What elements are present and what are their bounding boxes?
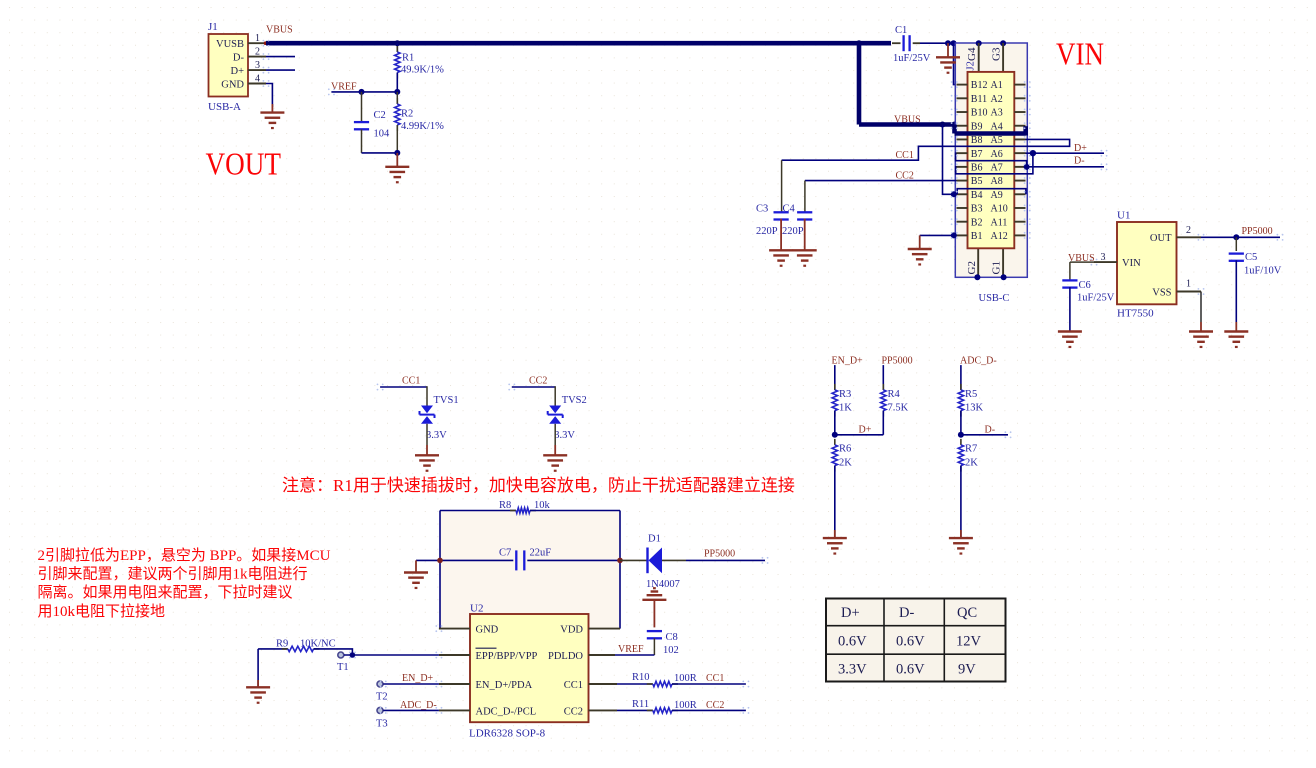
test point T1: [338, 652, 344, 658]
junction VBUS/R1: [394, 40, 400, 46]
svg-text:PP5000: PP5000: [704, 549, 735, 560]
wire VBUS thick to B9: [859, 122, 956, 127]
junction B12 branch: [951, 40, 957, 46]
svg-text:J1: J1: [208, 21, 218, 33]
ground (C5): [1224, 332, 1248, 347]
svg-text:3: 3: [1101, 252, 1106, 263]
gnd stem R9: [257, 649, 259, 687]
resistor R4: [882, 365, 884, 390]
svg-text:PDLDO: PDLDO: [548, 651, 583, 662]
svg-text:G1: G1: [991, 261, 1003, 274]
U1 pin2 stub: [1177, 236, 1202, 238]
svg-text:隔离。如果用电阻来配置，下拉时建议: 隔离。如果用电阻来配置，下拉时建议: [38, 584, 293, 601]
pin A12 stub: [1014, 234, 1025, 236]
svg-text:A2: A2: [991, 94, 1003, 105]
U2 CC2 stub: [589, 709, 618, 711]
pin A6 stub: [1014, 152, 1025, 154]
svg-text:B6: B6: [971, 162, 983, 173]
pin G4 stub: [978, 43, 980, 72]
wire D- from J1: [266, 56, 295, 58]
svg-text:引脚来配置，建议两个引脚用1k电阻进行: 引脚来配置，建议两个引脚用1k电阻进行: [38, 566, 308, 583]
snap markers: [263, 40, 270, 47]
pin A10 stub: [1014, 207, 1025, 209]
svg-text:ADC_D-: ADC_D-: [960, 356, 997, 367]
wire PP5000 from D1: [686, 559, 765, 561]
svg-text:GND: GND: [476, 625, 499, 636]
svg-text:B9: B9: [971, 121, 983, 132]
svg-text:R11: R11: [632, 699, 649, 710]
wire D- from A7: [1026, 166, 1105, 168]
wire D+ from J1: [266, 69, 295, 71]
svg-text:C6: C6: [1079, 280, 1091, 291]
U2 VDD stub: [589, 628, 621, 630]
U2 GND stub: [439, 628, 470, 630]
svg-text:R10: R10: [632, 672, 650, 683]
wire B1 to gnd: [920, 234, 957, 236]
svg-text:CC1: CC1: [402, 376, 420, 387]
ground (VSS): [1189, 332, 1213, 347]
svg-text:U1: U1: [1117, 210, 1130, 222]
svg-text:CC1: CC1: [564, 680, 583, 691]
pin B7 stub: [957, 152, 968, 154]
svg-text:R7: R7: [965, 444, 977, 455]
capacitor C5: [1235, 237, 1237, 251]
wire VBUS thick across B9 A4: [955, 131, 1026, 136]
wire CC2 to TVS2: [512, 386, 555, 388]
svg-text:B4: B4: [971, 190, 983, 201]
svg-text:PP5000: PP5000: [882, 356, 913, 367]
svg-text:VREF: VREF: [618, 644, 644, 655]
junction top G4: [976, 40, 982, 46]
gnd stem R2: [396, 153, 398, 167]
svg-text:VSS: VSS: [1152, 287, 1171, 298]
wire B4 to A9 loop: [957, 189, 1026, 195]
ground (R9): [246, 687, 270, 702]
ground (TVS2): [543, 455, 567, 470]
svg-text:J2: J2: [966, 61, 977, 70]
svg-text:2: 2: [1186, 225, 1191, 236]
svg-text:3.3V: 3.3V: [838, 662, 867, 678]
svg-text:A4: A4: [991, 121, 1003, 132]
wire gnd stem J1: [271, 104, 273, 113]
svg-text:R9: R9: [276, 639, 288, 650]
svg-text:VIN: VIN: [1056, 36, 1104, 72]
J1 pin 1 stub: [248, 42, 266, 44]
svg-text:3.3V: 3.3V: [554, 430, 575, 441]
wire VBUS thick bus: [266, 41, 891, 46]
svg-text:1K: 1K: [839, 403, 852, 414]
J1 pin 4 stub: [248, 83, 266, 85]
connector J1 body USB-A: [209, 34, 249, 97]
wire T3 to ADC pin: [383, 709, 439, 711]
junction C5: [1233, 234, 1239, 240]
gnd stem C1: [947, 43, 949, 57]
svg-text:4.99K/1%: 4.99K/1%: [401, 121, 444, 132]
svg-text:CC2: CC2: [706, 700, 724, 711]
svg-text:VUSB: VUSB: [216, 39, 244, 50]
svg-text:D1: D1: [648, 534, 661, 545]
svg-text:TVS2: TVS2: [562, 395, 587, 406]
pin B12 stub: [957, 84, 968, 86]
svg-text:R6: R6: [839, 444, 851, 455]
svg-text:1N4007: 1N4007: [646, 579, 680, 590]
svg-text:EN_D+/PDA: EN_D+/PDA: [476, 680, 533, 691]
pin A1 stub: [1014, 84, 1025, 86]
svg-text:2引脚拉低为EPP，悬空为 BPP。如果接MCU: 2引脚拉低为EPP，悬空为 BPP。如果接MCU: [38, 547, 331, 564]
wire CC2 to B5: [805, 180, 957, 182]
svg-text:TVS1: TVS1: [434, 395, 459, 406]
svg-text:D+: D+: [859, 425, 872, 436]
pin B1 stub: [957, 234, 968, 236]
svg-text:D-: D-: [233, 52, 245, 63]
junction top G3: [1000, 40, 1006, 46]
svg-text:D-: D-: [899, 605, 914, 621]
svg-text:A9: A9: [991, 190, 1003, 201]
svg-text:VIN: VIN: [1122, 258, 1141, 269]
svg-text:2K: 2K: [965, 458, 978, 469]
resistor R5: [960, 365, 962, 390]
svg-text:GND: GND: [221, 79, 244, 90]
wire CC1 down to C3: [781, 160, 783, 213]
wire B7 to A7 (D-): [956, 153, 1027, 167]
wire CC1 to TVS1: [380, 386, 427, 388]
svg-text:C2: C2: [374, 110, 386, 121]
svg-text:OUT: OUT: [1150, 233, 1172, 244]
wire TVS1 to gnd: [426, 424, 428, 445]
ground (B1): [908, 249, 932, 264]
wire VREF to C8: [615, 654, 654, 656]
junction VREF/R1R2: [394, 89, 400, 95]
wire D+ node: [835, 434, 884, 436]
svg-text:220P: 220P: [782, 226, 804, 237]
svg-text:C3: C3: [756, 204, 768, 215]
capacitor C7: [416, 559, 513, 561]
wire VBUS thick jog down: [952, 125, 957, 134]
svg-text:100R: 100R: [674, 673, 697, 684]
svg-text:R8: R8: [499, 500, 511, 511]
svg-text:B1: B1: [971, 231, 983, 242]
svg-text:VDD: VDD: [560, 625, 583, 636]
pin A3 stub: [1014, 111, 1025, 113]
wire D- node: [961, 434, 1008, 436]
table QC: [826, 599, 1006, 682]
svg-text:1uF/25V: 1uF/25V: [893, 53, 931, 64]
svg-text:0.6V: 0.6V: [896, 634, 925, 650]
svg-text:0.6V: 0.6V: [838, 634, 867, 650]
svg-text:1: 1: [1186, 279, 1191, 290]
svg-text:49.9K/1%: 49.9K/1%: [401, 65, 444, 76]
svg-text:用10k电阻下拉接地: 用10k电阻下拉接地: [38, 603, 166, 620]
U2 EN stub: [439, 683, 470, 685]
junction B1: [951, 232, 957, 238]
svg-text:A5: A5: [991, 135, 1003, 146]
pin A9 stub: [1014, 193, 1025, 195]
junction T1: [350, 652, 356, 658]
wire CC2 down to C4: [804, 181, 806, 213]
svg-text:A12: A12: [991, 231, 1008, 242]
ground (TVS1): [415, 455, 439, 470]
resistor R6: [834, 439, 836, 445]
svg-text:A11: A11: [991, 217, 1008, 228]
wire loop left: [439, 511, 441, 629]
svg-text:A10: A10: [991, 204, 1008, 215]
resistor R7: [960, 439, 962, 445]
tvs diode TVS2: [548, 406, 563, 424]
tvs diode TVS1: [420, 406, 435, 424]
junction D+ node: [832, 432, 838, 438]
svg-text:D+: D+: [1074, 143, 1087, 154]
pin A4 stub: [1014, 125, 1025, 127]
svg-text:B12: B12: [971, 80, 988, 91]
svg-text:7.5K: 7.5K: [888, 403, 909, 414]
svg-text:B5: B5: [971, 176, 983, 187]
U2 PDLDO stub: [589, 654, 616, 656]
pin B4 stub: [957, 193, 968, 195]
wire D1 node to C8: [653, 600, 655, 628]
ground (C6): [1058, 332, 1082, 347]
test point T2: [377, 681, 383, 687]
resistor R1: [396, 43, 398, 52]
svg-text:B10: B10: [971, 108, 988, 119]
pin A8 stub: [1014, 180, 1025, 182]
svg-text:USB-C: USB-C: [979, 293, 1010, 304]
wire B6 to A6 (D+): [956, 153, 1033, 174]
wire gnd net to USB-C top: [920, 42, 955, 44]
svg-text:R1: R1: [402, 53, 414, 64]
svg-text:USB-A: USB-A: [208, 101, 241, 113]
svg-text:EN_D+: EN_D+: [402, 673, 434, 684]
svg-text:CC1: CC1: [706, 673, 724, 684]
svg-text:2: 2: [255, 47, 260, 58]
svg-text:B11: B11: [971, 94, 987, 105]
svg-text:22uF: 22uF: [530, 548, 552, 559]
svg-text:T3: T3: [376, 719, 388, 730]
resistor R2: [396, 92, 398, 104]
wire VSS down: [1200, 292, 1202, 323]
junction R2 gnd: [394, 150, 400, 156]
svg-text:C1: C1: [895, 25, 907, 36]
svg-text:B2: B2: [971, 217, 983, 228]
junction C7 left: [437, 558, 443, 564]
svg-text:PP5000: PP5000: [1242, 226, 1273, 237]
diode D1: [620, 559, 648, 561]
U2 body LDR6328: [470, 614, 589, 722]
svg-text:EPP/BPP/VPP: EPP/BPP/VPP: [476, 651, 538, 662]
junction D- node: [958, 432, 964, 438]
pin B8 stub: [957, 138, 968, 140]
pin B6 stub: [957, 166, 968, 168]
wire loop right: [619, 511, 621, 629]
svg-text:U2: U2: [470, 603, 483, 615]
svg-text:B3: B3: [971, 204, 983, 215]
junction J1 pin1: [264, 41, 268, 45]
svg-text:LDR6328 SOP-8: LDR6328 SOP-8: [469, 728, 546, 740]
pin G1 stub: [1002, 248, 1004, 277]
svg-text:A6: A6: [991, 149, 1003, 160]
svg-text:R4: R4: [888, 389, 901, 400]
svg-text:1uF/25V: 1uF/25V: [1077, 293, 1115, 304]
svg-text:D+: D+: [841, 605, 860, 621]
svg-text:T2: T2: [376, 692, 388, 703]
pin B9 stub: [957, 125, 968, 127]
pin G3 stub: [1002, 43, 1004, 72]
J1 pin 3 stub: [248, 69, 266, 71]
svg-text:A8: A8: [991, 176, 1003, 187]
capacitor C6: [1069, 262, 1071, 281]
U2 EPP stub: [439, 654, 470, 656]
pin B5 stub: [957, 180, 968, 182]
U1 pin1 stub: [1177, 291, 1202, 293]
junction VREF/C2: [359, 89, 365, 95]
wire C2-R2 bottom: [362, 152, 398, 154]
svg-text:R3: R3: [839, 389, 851, 400]
svg-text:A7: A7: [991, 162, 1003, 173]
ground (J1): [260, 113, 284, 128]
wire VBUS thick vertical: [857, 45, 862, 125]
svg-text:ADC_D-: ADC_D-: [400, 700, 437, 711]
svg-text:C8: C8: [666, 632, 678, 643]
svg-text:12V: 12V: [956, 634, 982, 650]
capacitor C8: [647, 631, 662, 638]
svg-text:G4: G4: [966, 47, 978, 61]
ground (R6): [823, 538, 847, 553]
svg-text:A3: A3: [991, 108, 1003, 119]
junction bottom G1: [1001, 274, 1007, 280]
wire GND from J1 pin4: [266, 84, 272, 108]
svg-text:A1: A1: [991, 80, 1003, 91]
junction bottom G2: [974, 274, 980, 280]
svg-text:10k: 10k: [534, 500, 551, 511]
pin A7 stub: [1014, 166, 1025, 168]
svg-text:CC2: CC2: [529, 376, 547, 387]
ground (C3): [769, 250, 793, 265]
svg-text:ADC_D-/PCL: ADC_D-/PCL: [476, 706, 537, 717]
svg-text:注意：R1用于快速插拔时，加快电容放电，防止干扰适配器建立连: 注意：R1用于快速插拔时，加快电容放电，防止干扰适配器建立连接: [282, 476, 795, 495]
flipped ground above C8: [642, 588, 666, 600]
U2 CC1 stub: [589, 683, 618, 685]
svg-text:R5: R5: [965, 389, 977, 400]
svg-text:VOUT: VOUT: [206, 145, 282, 181]
svg-text:CC2: CC2: [896, 171, 914, 182]
ground (R7): [949, 538, 973, 553]
svg-text:220P: 220P: [756, 226, 778, 237]
svg-text:D-: D-: [985, 425, 996, 436]
junction VBUS 2: [952, 122, 958, 128]
resistor R8: [440, 510, 516, 512]
svg-text:CC2: CC2: [564, 706, 583, 717]
svg-text:3.3V: 3.3V: [426, 430, 447, 441]
gnd stem C7: [415, 560, 417, 572]
wire TVS2 to gnd: [554, 424, 556, 445]
junction C7 right: [617, 558, 623, 564]
cream region: [440, 511, 620, 629]
svg-text:4: 4: [255, 74, 260, 85]
svg-text:1uF/10V: 1uF/10V: [1244, 265, 1282, 276]
svg-text:HT7550: HT7550: [1117, 308, 1154, 320]
junction B4: [951, 191, 957, 197]
wire VREF: [331, 91, 397, 93]
svg-text:G3: G3: [991, 47, 1003, 61]
svg-text:EN_D+: EN_D+: [832, 356, 864, 367]
U2 ADC stub: [439, 709, 470, 711]
thick VBUS corner junction: [856, 40, 862, 46]
svg-text:C4: C4: [783, 204, 796, 215]
wire OUT to PP5000: [1201, 236, 1280, 238]
svg-text:0.6V: 0.6V: [896, 662, 925, 678]
svg-text:T1: T1: [337, 662, 349, 673]
pin A2 stub: [1014, 97, 1025, 99]
svg-text:102: 102: [663, 645, 679, 656]
junction gnd stem: [945, 40, 951, 46]
svg-text:3: 3: [255, 60, 260, 71]
junction A6: [1030, 150, 1036, 156]
svg-text:D+: D+: [230, 66, 244, 77]
svg-text:VREF: VREF: [331, 81, 357, 92]
pin G2 stub: [977, 248, 979, 277]
wire T1 to EPP: [344, 654, 439, 656]
connector J2 USB-C outer body: [955, 43, 1027, 277]
svg-text:C5: C5: [1245, 252, 1257, 263]
J1 pin 2 stub: [248, 56, 266, 58]
svg-text:B8: B8: [971, 135, 983, 146]
svg-text:B7: B7: [971, 149, 983, 160]
pin A11 stub: [1014, 221, 1025, 223]
svg-text:1: 1: [255, 33, 260, 44]
ground (C4): [793, 250, 817, 265]
junction VBUS 1: [940, 122, 946, 128]
gnd stem B1: [919, 235, 921, 249]
capacitor C2: [361, 92, 363, 122]
ground (C1): [936, 57, 960, 72]
svg-text:C7: C7: [499, 548, 511, 559]
svg-text:104: 104: [374, 129, 391, 140]
pin B11 stub: [957, 97, 968, 99]
wire VBUS to VIN: [1070, 261, 1094, 263]
pin B2 stub: [957, 221, 968, 223]
svg-text:2K: 2K: [839, 458, 852, 469]
pin A5 stub: [1014, 138, 1025, 140]
pin B10 stub: [957, 111, 968, 113]
svg-text:CC1: CC1: [896, 150, 914, 161]
junction A7: [1024, 164, 1030, 170]
wire CC1 from A5: [782, 139, 1070, 160]
svg-text:G2: G2: [966, 261, 978, 274]
resistor R3: [834, 365, 836, 390]
svg-text:R2: R2: [401, 108, 413, 119]
svg-text:D-: D-: [1074, 156, 1085, 167]
ground (R2/C2): [385, 167, 409, 182]
connector J2 inner body: [968, 72, 1015, 248]
U1 body HT7550: [1117, 222, 1177, 304]
U1 pin3 stub: [1094, 261, 1117, 263]
wire to B12: [954, 43, 957, 84]
wire VBUS thick hook to A4: [1023, 126, 1028, 135]
svg-text:9V: 9V: [958, 662, 976, 678]
wire D+ from A6: [1026, 152, 1105, 154]
test point T3: [377, 707, 383, 713]
wire VBUS branch to B4: [943, 125, 957, 195]
svg-text:13K: 13K: [965, 403, 984, 414]
svg-text:QC: QC: [957, 605, 977, 621]
pin B3 stub: [957, 207, 968, 209]
svg-text:VBUS: VBUS: [266, 25, 293, 36]
svg-text:100R: 100R: [674, 700, 697, 711]
wire T2 to EN pin: [383, 683, 439, 685]
ground (C7): [404, 573, 428, 588]
